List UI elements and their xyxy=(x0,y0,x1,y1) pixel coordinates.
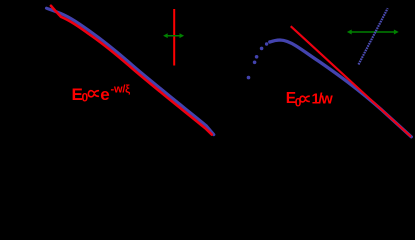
svg-text:0: 0 xyxy=(82,91,89,105)
left red vertical marker line xyxy=(173,9,175,66)
right panel red fit line xyxy=(291,26,411,137)
right blue dotted slope-indicator diagonal xyxy=(359,8,388,64)
svg-text:e: e xyxy=(100,85,109,104)
left green double-headed arrow xyxy=(164,34,183,37)
svg-text:1/w: 1/w xyxy=(312,91,334,107)
left panel red fit line xyxy=(51,6,212,135)
svg-text:-w/ξ: -w/ξ xyxy=(111,84,131,96)
right label E0 proportional to 1/w xyxy=(286,90,334,109)
right green double-headed arrow xyxy=(348,30,398,33)
left panel blue data curve xyxy=(47,8,214,134)
right panel sparse blue data dots xyxy=(247,40,272,79)
right panel dense blue data curve xyxy=(270,40,411,137)
left label E0 proportional to e^-w/xi xyxy=(72,84,131,105)
